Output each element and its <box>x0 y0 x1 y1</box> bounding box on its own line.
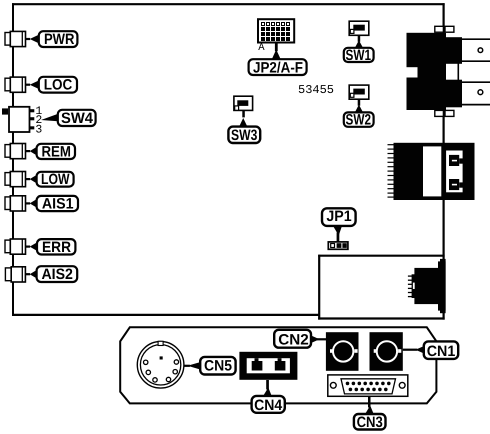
rear panel outline <box>120 327 436 403</box>
BNC thread section bottom <box>446 80 462 108</box>
callout label SW2 <box>344 111 374 128</box>
svg-text:LOC: LOC <box>44 77 73 94</box>
D-sub pins row 2 <box>349 388 388 392</box>
callout label SW3 <box>228 127 260 144</box>
BNC barrel 1 top line <box>458 38 490 40</box>
modular jack white inner <box>446 151 463 193</box>
callout label AIS2 <box>37 266 78 283</box>
JP2 grid row 1 (open) <box>262 23 290 26</box>
BNC barrel 2 bottom line <box>458 104 490 106</box>
callout arrow SW4 <box>41 114 58 121</box>
sub-board left edge <box>318 255 320 320</box>
svg-text:SW3: SW3 <box>231 127 257 144</box>
LED REM <box>5 144 26 159</box>
callout label CN2 <box>274 330 311 349</box>
callout arrow CN1 <box>403 346 425 354</box>
svg-text:CN5: CN5 <box>204 358 232 375</box>
callout arrow CN2 <box>311 335 327 343</box>
LED AIS1 <box>5 196 26 211</box>
callout label LOC <box>39 77 77 94</box>
svg-text:PWR: PWR <box>44 31 75 48</box>
D-sub screw right <box>399 382 405 388</box>
BNC barrel 2 pin <box>478 90 483 95</box>
callout label LOW <box>37 171 74 188</box>
SW4 pin 1 <box>30 109 35 112</box>
switch SW4 body <box>9 107 30 132</box>
sub-board connector notch <box>413 283 415 289</box>
switch SW2 icon <box>349 85 369 99</box>
BNC thread section top <box>446 37 462 64</box>
DIN center key square <box>160 356 163 359</box>
SW4 left black pad <box>2 108 8 114</box>
svg-text:AIS2: AIS2 <box>41 266 73 283</box>
DIN connector CN5 outer ring <box>137 342 184 389</box>
svg-text:3: 3 <box>35 123 42 136</box>
BNC mount tab bottom-right <box>445 110 454 116</box>
svg-text:53455: 53455 <box>298 83 334 97</box>
board outline left edge <box>12 3 14 316</box>
svg-text:JP2/A-F: JP2/A-F <box>253 59 303 76</box>
callout arrow CN5 <box>184 362 202 370</box>
BNC jack CN1 <box>370 332 403 371</box>
BNC barrel 1 bottom line <box>458 60 490 62</box>
svg-text:REM: REM <box>41 143 71 160</box>
board outline bottom edge <box>12 314 320 316</box>
modular jack pins (left comb) <box>388 145 394 197</box>
callout label CN4 <box>252 396 285 414</box>
board outline top edge <box>12 3 445 5</box>
SW4 pin 2 <box>30 117 35 120</box>
svg-text:CN3: CN3 <box>357 414 383 431</box>
callout arrow CN4 <box>263 380 273 397</box>
callout arrow ERR <box>26 242 38 251</box>
svg-text:CN2: CN2 <box>278 332 309 349</box>
callout arrow JP1 <box>333 226 342 242</box>
sub-board connector stepped body <box>412 259 446 313</box>
modular jack white strip <box>423 146 441 196</box>
callout label CN3 <box>354 414 386 431</box>
callout label REM <box>37 143 75 160</box>
jumper JP1 <box>328 242 348 249</box>
svg-text:ERR: ERR <box>42 239 71 256</box>
callout arrow LOC <box>26 80 40 89</box>
D-sub pins row 1 <box>346 382 391 386</box>
BNC jack CN2 <box>326 332 359 371</box>
jumper block JP2/A-F <box>258 19 294 42</box>
BNC mount tab top-right <box>445 26 454 32</box>
D-sub screw left <box>330 382 336 388</box>
callout label SW1 <box>344 47 374 64</box>
svg-text:SW2: SW2 <box>346 111 372 128</box>
LED LOC <box>5 77 26 92</box>
svg-text:CN1: CN1 <box>427 343 456 360</box>
DIN connector CN5 inner ring <box>140 345 180 385</box>
callout arrow SW3 <box>239 110 248 127</box>
callout arrow CN3 <box>365 397 375 416</box>
callout label JP2/A-F <box>249 59 307 76</box>
SW4 pin 3 <box>30 126 35 129</box>
power connector CN4 <box>239 352 297 380</box>
BNC middle joint line <box>457 62 459 81</box>
LED AIS2 <box>5 267 25 282</box>
callout label AIS1 <box>37 196 78 213</box>
callout arrow JP2 <box>272 43 281 60</box>
callout label ERR <box>37 239 75 256</box>
sub-board top edge <box>318 255 444 257</box>
callout arrow AIS2 <box>26 270 38 279</box>
svg-text:SW4: SW4 <box>61 110 94 127</box>
LED ERR <box>5 239 26 254</box>
D-sub connector CN3 <box>328 375 408 396</box>
callout label JP1 <box>322 208 356 226</box>
callout arrow REM <box>26 147 38 156</box>
board right edge through jack <box>443 143 445 200</box>
svg-text:LOW: LOW <box>41 171 70 188</box>
switch SW3 icon <box>234 96 253 110</box>
BNC barrel 1 pin <box>478 48 483 53</box>
modular jack slot 1 <box>449 155 465 166</box>
BNC mount tab top-left <box>435 26 444 32</box>
callout label CN1 <box>424 341 458 359</box>
callout arrow PWR <box>26 34 40 43</box>
DIN key notch <box>158 341 163 345</box>
svg-text:JP1: JP1 <box>326 208 351 225</box>
callout label CN5 <box>200 357 235 375</box>
DIN pin circles <box>144 360 179 382</box>
switch SW1 icon <box>349 21 369 35</box>
modular jack slot 2 <box>449 179 465 190</box>
callout arrow SW2 <box>355 99 364 113</box>
svg-text:AIS1: AIS1 <box>42 196 74 213</box>
board outline right edge <box>443 3 445 319</box>
callout arrow AIS1 <box>26 199 38 208</box>
callout arrow SW1 <box>355 35 364 48</box>
callout label PWR <box>39 31 78 48</box>
BNC mount tab bottom-left <box>435 110 444 116</box>
callout arrow LOW <box>26 175 38 184</box>
svg-text:A: A <box>258 42 265 54</box>
sub-board bottom edge <box>318 317 444 319</box>
LED LOW <box>5 172 26 187</box>
svg-text:CN4: CN4 <box>254 397 283 414</box>
BNC body notch <box>405 67 417 77</box>
LED PWR <box>5 31 26 46</box>
sub-board connector pins <box>408 276 412 297</box>
BNC barrel 2 top line <box>458 81 490 83</box>
modular jack body <box>394 143 475 200</box>
svg-text:SW1: SW1 <box>346 47 372 64</box>
callout label SW4 <box>58 110 96 127</box>
JP2 grid rows 2-4 (filled) <box>261 27 290 41</box>
BNC connector body (right top) <box>407 33 447 110</box>
